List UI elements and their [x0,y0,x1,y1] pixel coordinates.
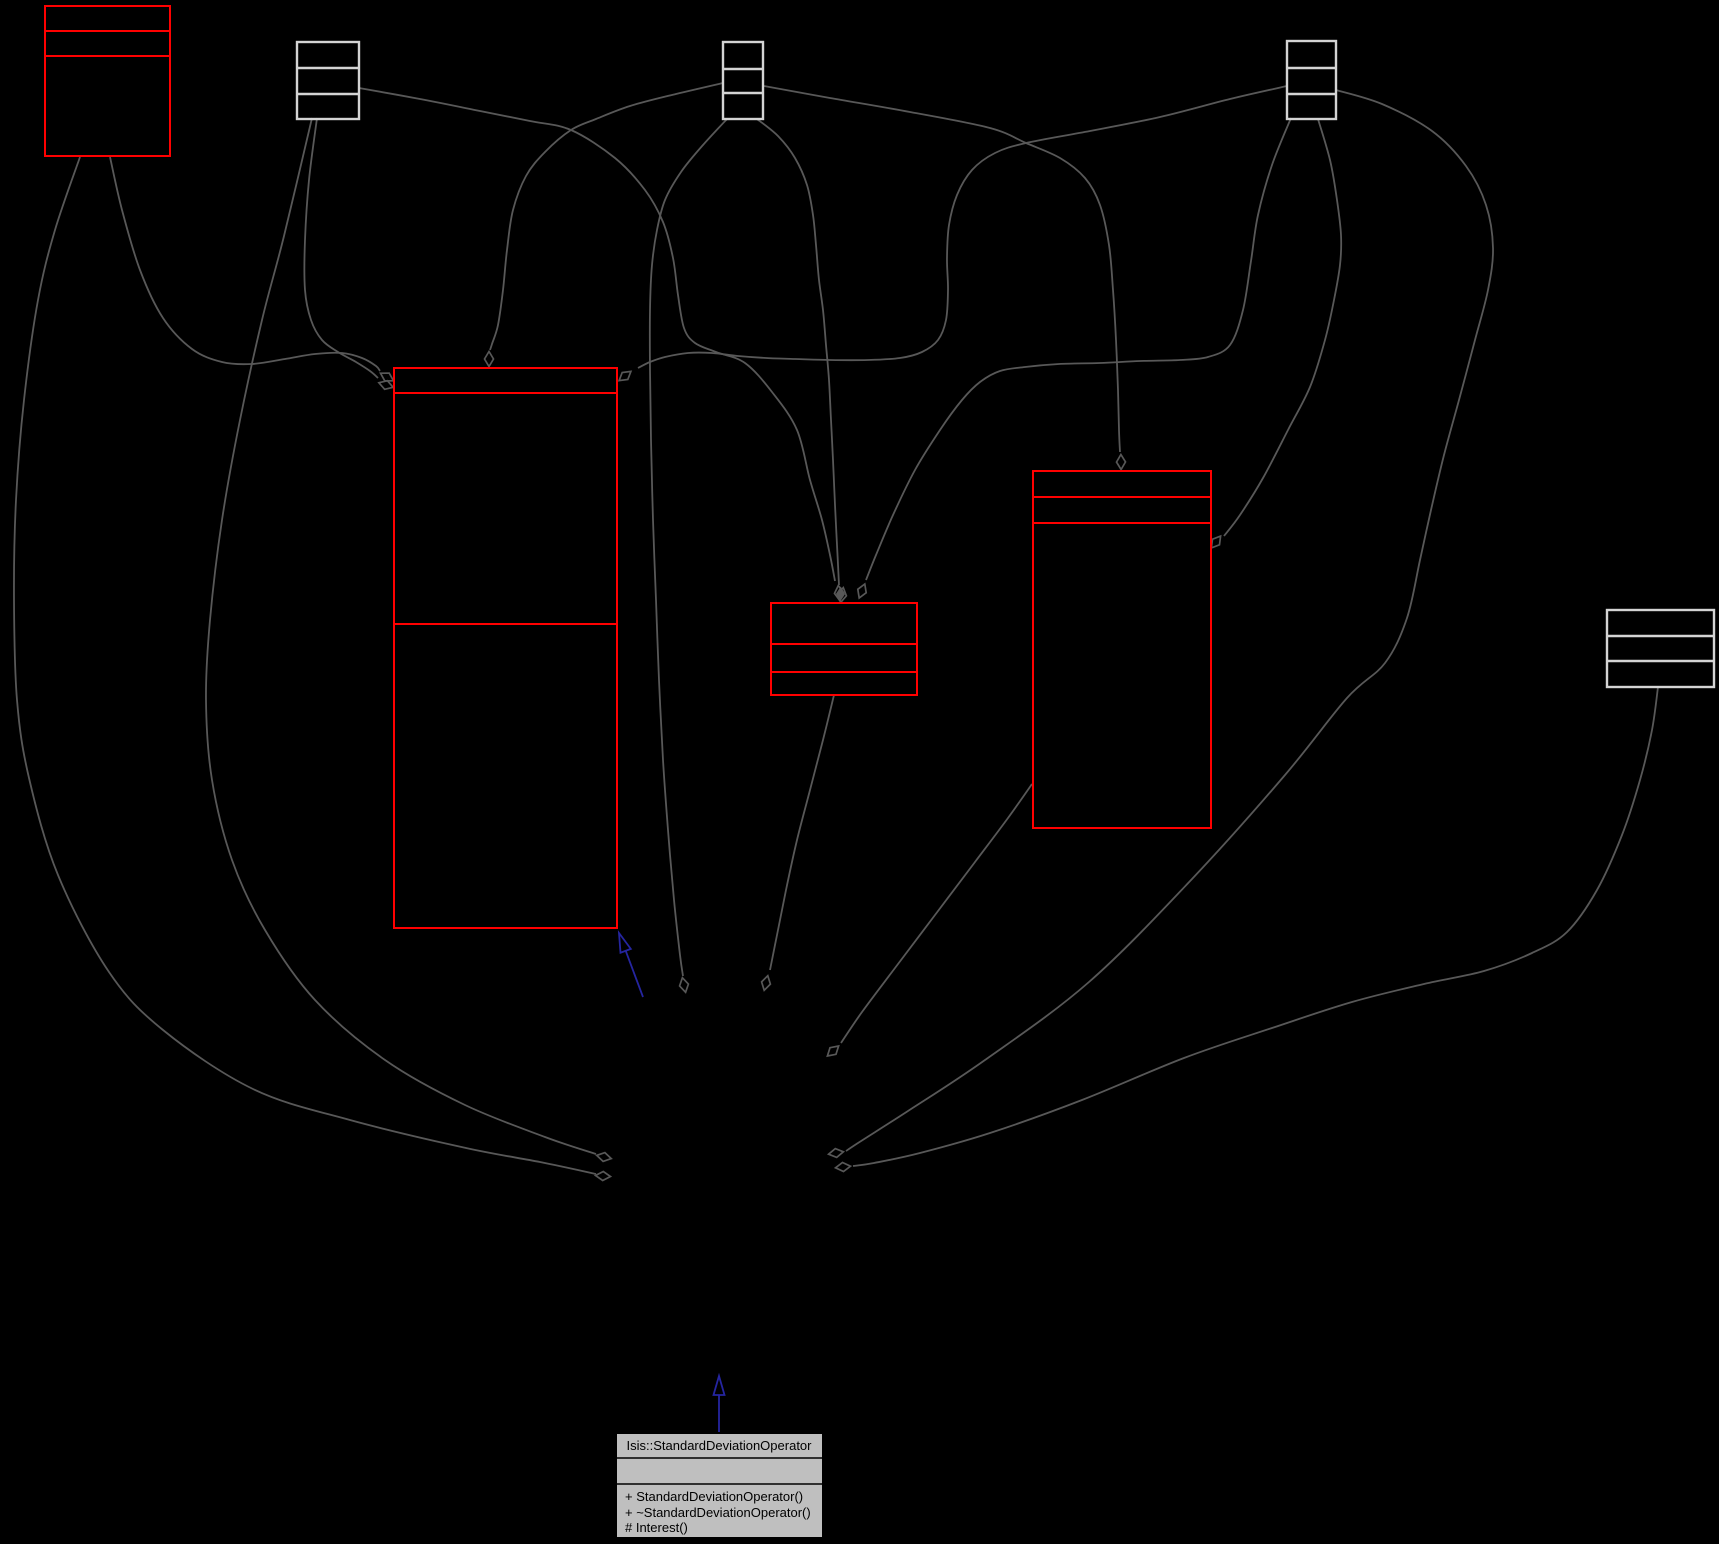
open diamond dE1 [596,1172,611,1181]
wire EP [359,88,835,581]
wire E1 [14,157,596,1174]
wire E7 [638,86,1287,368]
open diamond dE12 [680,978,689,993]
gray class box B3 (top middle) [723,42,763,119]
open diamond dEB3d [838,588,847,603]
filled diamond core at B6 left attach [836,587,845,602]
wire E12 [650,119,727,976]
gray class box B8 (far right) [1607,610,1714,687]
open diamond dE3 [597,1153,612,1162]
wire EB3d [757,119,839,585]
inheritance arrow A2 (from Isis::StandardDeviationOperator upward) [718,1395,720,1433]
red class box B1 (top-left, truncated class) [45,6,170,156]
svg-text:+ ~StandardDeviationOperator(): + ~StandardDeviationOperator() [625,1505,811,1520]
open diamond dE11 [829,1149,844,1158]
wire E3 [206,118,596,1154]
open diamond dE17 [485,352,494,367]
wire E14 [841,784,1032,1043]
gray class box B4 (top right) [1287,41,1336,119]
main class node Isis::StandardDeviationOperator [616,1433,823,1538]
red class box B5 (large, center-left) [394,368,617,928]
wire E6 [866,118,1291,580]
open diamond dE7 [619,371,631,380]
wire E16 [853,687,1658,1166]
gray class box B2 [297,42,359,119]
open diamond dE4 [379,381,393,390]
svg-text:+ StandardDeviationOperator(): + StandardDeviationOperator() [625,1489,803,1504]
wire E11 [846,90,1493,1151]
wire E9 [1224,119,1341,536]
open diamond dEP [835,586,844,601]
inheritance arrow A1 (to big red class bottom-right corner) [626,951,643,997]
wire E13 [770,695,834,970]
wire E2 [110,157,380,371]
open diamond dE8 [1117,455,1126,470]
svg-text:Isis::StandardDeviationOperato: Isis::StandardDeviationOperator [627,1438,813,1453]
open diamond dE6 [858,584,866,598]
open diamond dE13 [762,976,771,991]
open diamond dE16 [836,1163,851,1172]
red class box B6 (center) [771,603,917,695]
wire E4 [304,118,378,378]
open diamond dE9 [1211,536,1220,548]
open diamond dE14 [827,1046,838,1056]
red class box B7 (center-right) [1033,471,1211,828]
wire E17 [490,83,723,350]
svg-text:# Interest(): # Interest() [625,1520,688,1535]
wire E8 [764,86,1120,452]
open diamond dE2 [381,373,394,381]
